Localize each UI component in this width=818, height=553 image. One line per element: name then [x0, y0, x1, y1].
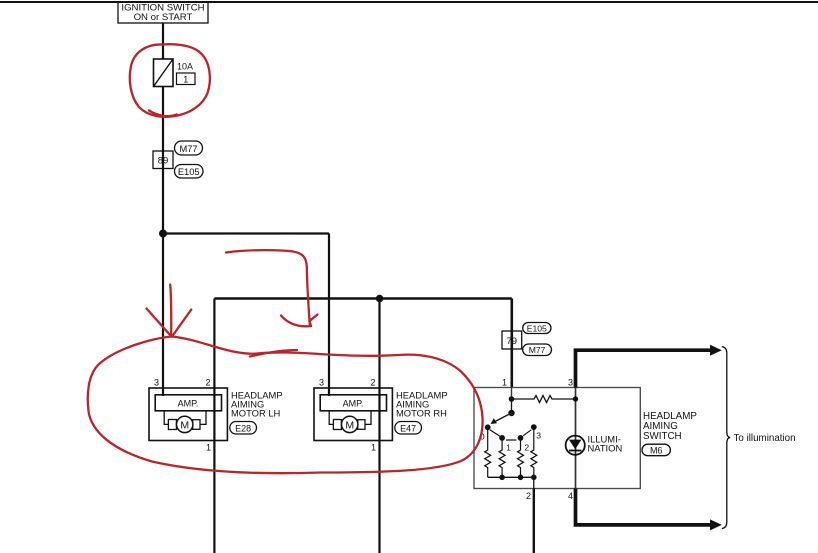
svg-text:10A: 10A — [177, 62, 193, 72]
wire: pin1 dot to pivot — [511, 399, 513, 413]
svg-text:To illumination: To illumination — [734, 433, 796, 444]
bottom bus of resistors — [488, 476, 534, 478]
headlamp aiming switch box M6 — [474, 388, 640, 489]
svg-text:4: 4 — [568, 491, 573, 501]
link 2-3 — [523, 430, 531, 436]
connector oval E105 — [175, 165, 204, 179]
connector oval M6 — [642, 444, 670, 456]
contact labels 0 1 2 3 — [480, 431, 541, 453]
RH motor pin labels — [319, 378, 376, 453]
svg-text:79: 79 — [507, 336, 518, 347]
svg-text:MOTOR LH: MOTOR LH — [231, 408, 280, 419]
red tail at circle bottom — [149, 111, 177, 117]
svg-text:SWITCH: SWITCH — [643, 431, 682, 442]
wire: ignition switch to fuse — [162, 23, 164, 59]
resistor R-top (between pin1 node and pin3 line) — [512, 396, 576, 403]
motor tabs RH — [333, 420, 341, 430]
headlamp aiming motor RH box E47 — [314, 388, 392, 441]
red hook arrowhead — [281, 315, 318, 327]
connector oval M77 — [175, 141, 203, 155]
motor M circle LH — [177, 416, 193, 432]
label HEADLAMP AIMING MOTOR RH — [396, 390, 448, 419]
red kink stroke on ellipse top — [250, 350, 297, 357]
wire: pin 2 to bottom edge — [533, 489, 535, 553]
switch pin labels 1 and 3 — [502, 378, 573, 388]
label HEADLAMP AIMING SWITCH — [643, 411, 697, 442]
svg-text:M6: M6 — [650, 445, 663, 455]
wire: LH motor pin 2 / pin 1 vertical — [213, 299, 215, 553]
connector oval M77 (79) — [523, 344, 552, 356]
red circle around fuse — [130, 44, 210, 117]
switch wiper arm with arrowhead — [491, 413, 512, 424]
resistor R2 — [518, 438, 524, 477]
motor link wires LH — [164, 411, 169, 425]
svg-text:3: 3 — [536, 431, 541, 441]
wire: junction A to RH motor branch (horizontal) — [163, 232, 329, 234]
svg-text:E105: E105 — [527, 324, 547, 334]
svg-text:AMP.: AMP. — [343, 399, 364, 409]
red annotations — [88, 44, 483, 473]
svg-text:E28: E28 — [235, 423, 251, 433]
svg-text:2: 2 — [526, 491, 531, 501]
AMP box LH — [155, 395, 221, 411]
wire: RH motor pin 2 / pin 1 vertical — [378, 299, 380, 553]
contact 0 — [485, 424, 491, 430]
top border line — [0, 1, 818, 3]
svg-text:AMP.: AMP. — [178, 399, 199, 409]
svg-text:89: 89 — [158, 156, 169, 167]
svg-text:3: 3 — [568, 378, 573, 388]
wire: down to RH motor pin 3 — [328, 234, 330, 397]
red hook arrow to RH motor — [226, 250, 310, 324]
AMP box RH — [320, 395, 386, 411]
contact 3 — [531, 424, 537, 430]
wire: junction A down to LH motor pin 3 — [162, 234, 164, 397]
label ILLUMI-NATION — [588, 434, 623, 454]
wire: fuse to junction (through connector 89) — [162, 87, 164, 234]
connector oval E47 — [395, 422, 422, 435]
link 0-1 — [490, 430, 500, 437]
svg-text:1: 1 — [206, 443, 211, 453]
power source box: IGNITION SWITCH ON or START — [118, 2, 208, 23]
svg-text:E105: E105 — [178, 167, 200, 177]
label HEADLAMP AIMING MOTOR LH — [231, 390, 283, 419]
resistor R3 — [531, 427, 537, 477]
svg-text:NATION: NATION — [588, 443, 623, 454]
svg-text:2: 2 — [524, 442, 529, 452]
svg-text:ON or START: ON or START — [134, 12, 193, 23]
svg-text:3: 3 — [154, 378, 159, 388]
contact 2 — [518, 435, 524, 441]
svg-text:1: 1 — [502, 378, 507, 388]
node: pin1 junction dot — [509, 396, 515, 402]
connector 79 — [502, 331, 522, 349]
resistor R0 — [485, 427, 491, 477]
junction node A — [159, 230, 167, 238]
thick wire: switch pin 3 to illumination (top arrow) — [576, 345, 722, 388]
junction node B — [376, 295, 384, 303]
svg-text:E47: E47 — [400, 423, 416, 433]
contact 1 — [499, 435, 505, 441]
red V arrow to LH motor — [147, 285, 192, 337]
wire: bus down to switch pin 1 (through connector 79) — [510, 299, 513, 388]
wire: switch pin 1 stub — [511, 388, 513, 400]
svg-text:3: 3 — [319, 378, 324, 388]
svg-text:M77: M77 — [179, 144, 197, 154]
connector 89 — [153, 151, 173, 169]
illumination lamp (diode symbol) — [566, 436, 585, 455]
red ellipse around motors — [88, 337, 483, 474]
resistor R1 — [499, 438, 505, 477]
svg-text:2: 2 — [205, 378, 210, 388]
motor link wires RH — [329, 411, 334, 425]
svg-text:1: 1 — [506, 442, 511, 452]
svg-text:1: 1 — [183, 74, 188, 84]
svg-text:2: 2 — [370, 378, 375, 388]
connector oval E105 (79) — [523, 323, 551, 334]
headlamp aiming motor LH box E28 — [149, 388, 227, 441]
motor tabs LH — [168, 420, 176, 430]
connector oval E28 — [230, 422, 257, 435]
thick wire: switch pin 4 to illumination (bottom arrow) — [576, 489, 722, 531]
fuse 10A — [154, 59, 174, 87]
LH motor pin labels — [154, 378, 211, 453]
node: pivot dot — [508, 410, 514, 416]
link 1-2 — [506, 439, 517, 441]
svg-text:MOTOR RH: MOTOR RH — [396, 408, 447, 419]
wire: bus to pin 2 — [533, 477, 535, 488]
motor M circle RH — [342, 416, 358, 432]
svg-text:M77: M77 — [529, 345, 546, 355]
svg-text:M: M — [180, 419, 189, 431]
wire: pin3 vertical inside switch — [575, 388, 577, 489]
node dot on pin3 line — [573, 396, 578, 401]
svg-text:M: M — [345, 419, 354, 431]
fuse number box 1 — [177, 73, 196, 85]
switch pin labels 2 and 4 — [526, 491, 573, 501]
svg-text:1: 1 — [371, 443, 376, 453]
brace for To illumination — [722, 347, 730, 529]
wire: bus from LH pin 2 to switch pin 1 (horizontal) — [214, 297, 511, 300]
node dots on bottom bus — [499, 475, 536, 481]
